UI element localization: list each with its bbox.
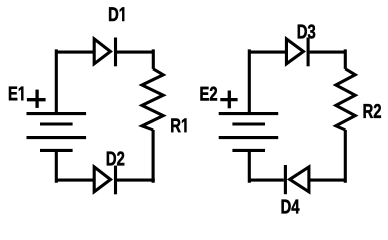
wire from D1 cathode to top-right corner down to R1 <box>117 49 153 69</box>
wire right circuit top-left: battery plus terminal up and across to D3 anode <box>248 49 287 113</box>
label E1 <box>9 87 23 101</box>
wire from R1 down to bottom-right corner and to D2 cathode <box>117 130 155 183</box>
label R2 <box>364 104 381 118</box>
battery E1 <box>27 114 87 151</box>
battery E2 <box>219 114 279 151</box>
wire from D3 cathode to top-right corner down to R2 <box>310 49 346 69</box>
wire from D2 anode to bottom-left corner and up to battery minus <box>55 150 94 182</box>
plus sign of E2 <box>220 91 237 109</box>
plus sign of E1 <box>27 90 46 108</box>
resistor R2 <box>336 69 355 130</box>
diode D4 (points left) <box>285 165 309 194</box>
diode D3 <box>286 38 308 67</box>
diode D1 <box>94 38 115 67</box>
label R1 <box>171 118 186 132</box>
label E2 <box>200 87 217 101</box>
label D2 <box>107 151 124 165</box>
wire left circuit top-left: battery plus terminal up and across to D1 anode <box>55 49 94 113</box>
wire from D4 to bottom-left corner and up to battery minus <box>248 150 284 182</box>
resistor R1 <box>142 69 163 130</box>
label D1 <box>109 7 124 21</box>
diode D2 <box>94 166 115 195</box>
label D4 <box>282 200 300 214</box>
wire from R2 down to bottom-right corner and to D4 cathode side <box>309 130 347 183</box>
label D3 <box>298 24 315 38</box>
